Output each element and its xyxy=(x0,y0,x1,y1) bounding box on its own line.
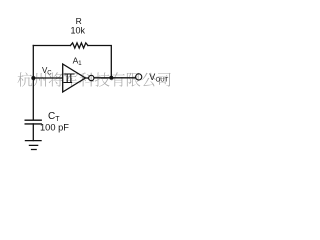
wire: top horizontal left segment xyxy=(33,45,70,47)
inverter A1 triangle xyxy=(63,64,86,92)
label VC xyxy=(42,66,52,77)
svg-text:R: R xyxy=(76,16,82,26)
output terminal circle xyxy=(136,74,142,80)
watermark text 杭州将军科技有限公司 xyxy=(18,72,171,86)
svg-text:C: C xyxy=(47,71,52,77)
inverter output bubble xyxy=(89,75,94,80)
label CT xyxy=(48,111,60,123)
wire: left vertical from top-left corner down to capacitor xyxy=(32,46,34,120)
svg-text:1: 1 xyxy=(78,61,82,67)
svg-text:10k: 10k xyxy=(71,26,86,36)
wire: node VC to inverter input xyxy=(33,77,62,79)
capacitor CT top plate xyxy=(25,119,41,121)
schmitt hysteresis symbol xyxy=(64,74,74,83)
capacitor CT bottom plate xyxy=(25,123,41,125)
wire: capacitor to ground xyxy=(32,124,34,141)
svg-text:C: C xyxy=(48,111,55,122)
label VOUT xyxy=(149,72,168,84)
ground xyxy=(25,141,41,150)
svg-text:100 pF: 100 pF xyxy=(40,122,69,132)
wire: apex to bubble xyxy=(85,77,88,79)
wire: bubble to output terminal xyxy=(94,77,136,79)
resistor R 10k zigzag xyxy=(70,43,88,48)
svg-text:OUT: OUT xyxy=(156,77,169,83)
svg-text:V: V xyxy=(149,72,155,82)
wire: top horizontal right segment + right vertical xyxy=(88,46,111,78)
label A1 xyxy=(73,56,83,67)
node VC junction dot xyxy=(31,76,35,80)
junction dot on output net xyxy=(109,76,113,80)
